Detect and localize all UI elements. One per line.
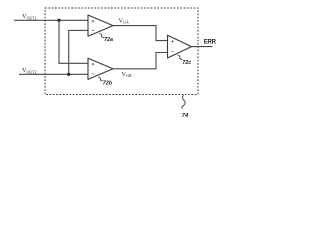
leader squiggle for 72b [98,77,103,81]
wire VGB from 72b output to 72c bottom input [113,53,168,69]
op-amp 72b [88,58,113,79]
op-amp 72a [88,15,113,36]
junction dot on VOUT2 wire [67,73,70,76]
leader squiggle for 72c [178,55,183,59]
wire from VOUT2 up to 72a bottom input [69,30,88,74]
op-amp 72b plus mark (top input) [92,63,94,65]
wire VOUT2 input [19,73,88,75]
op-amp 72a plus mark (top input) [92,20,94,22]
wire VOUT1 input [14,19,88,21]
svg-text:74: 74 [182,113,189,119]
op-amp 72b minus mark (bottom input) [92,73,94,75]
leader squiggle for 72a [99,33,104,37]
junction dot on VOUT1 wire [57,19,60,22]
op-amp 72c [168,35,192,58]
svg-text:ERR: ERR [204,39,217,45]
wire ERR output [192,46,213,48]
svg-text:72b: 72b [103,80,113,86]
op-amp 72a minus mark (bottom input) [92,29,94,31]
dashed border of block 74 [45,8,198,95]
wire VGA from 72a output to 72c top input [113,26,168,41]
svg-text:72c: 72c [182,60,191,66]
op-amp 72c minus mark (bottom input) [172,51,174,53]
svg-text:72a: 72a [104,37,113,43]
leader squiggle for 74 [182,95,185,109]
wire from VOUT1 down to 72b top input [59,20,88,63]
op-amp 72c plus mark (top input) [171,40,173,42]
